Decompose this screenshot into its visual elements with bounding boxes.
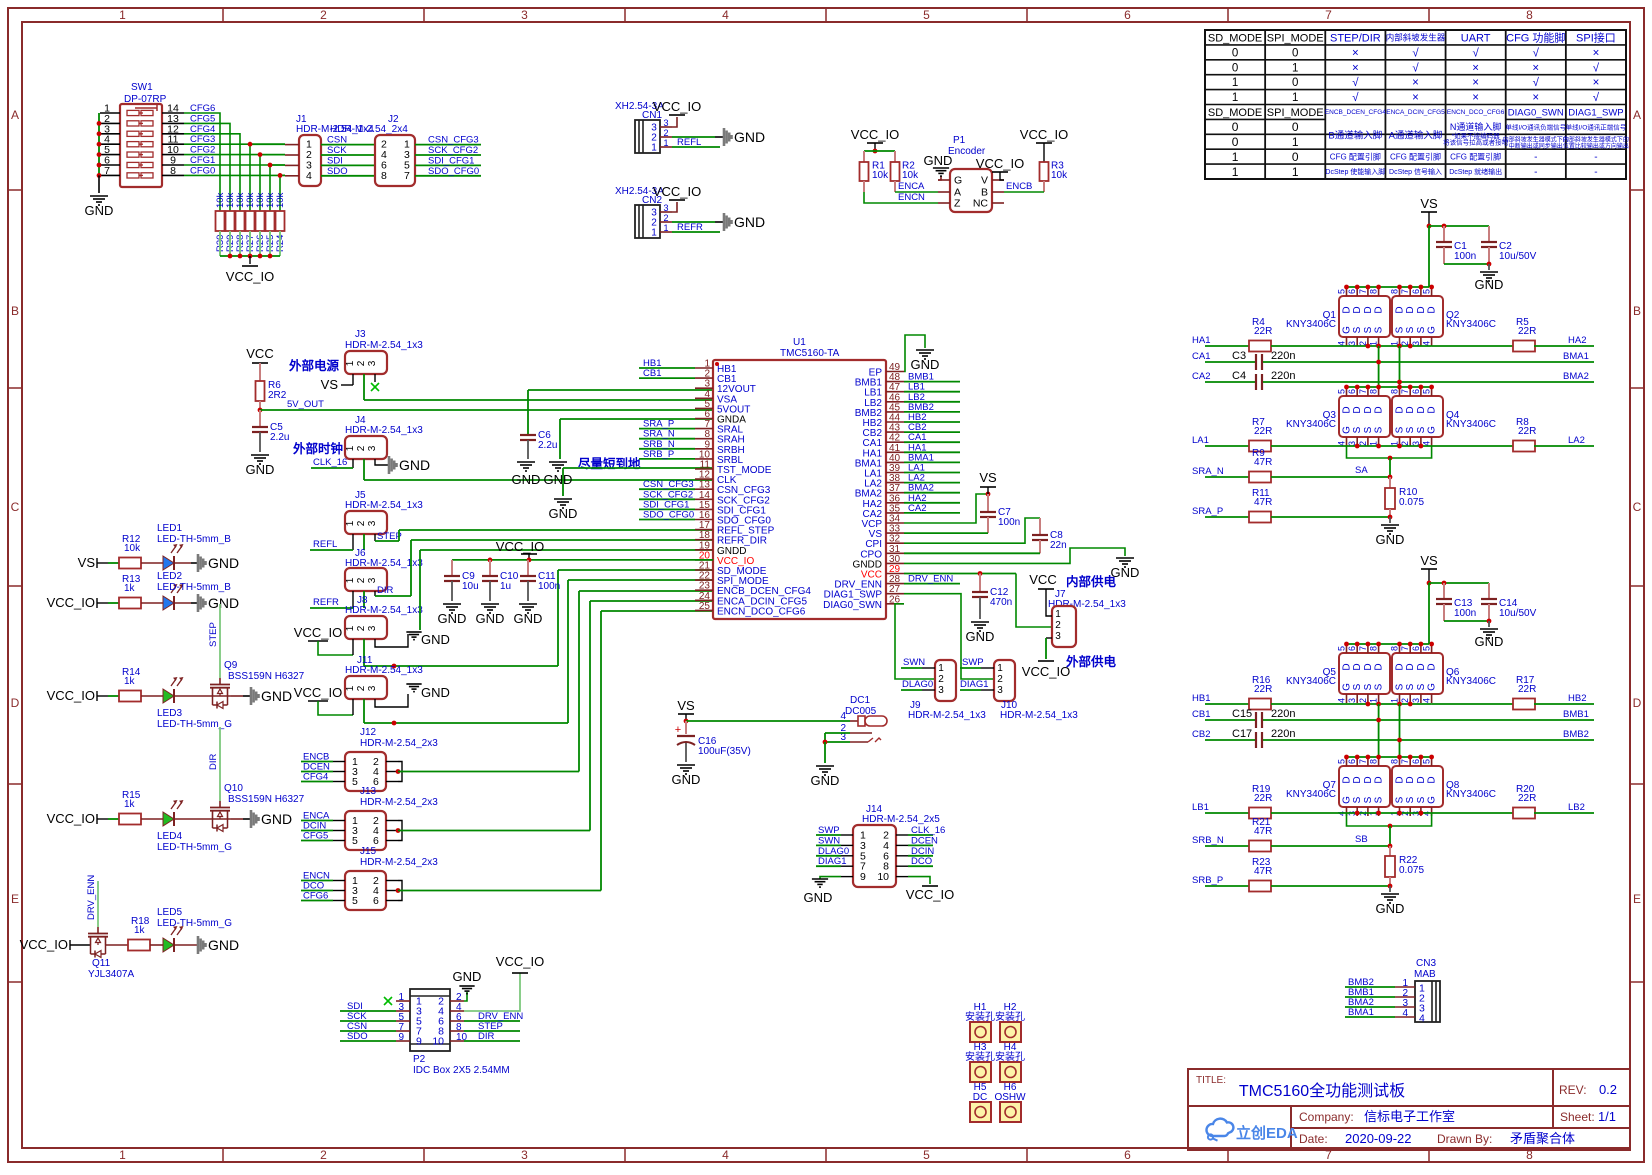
svg-text:外部电源: 外部电源	[288, 358, 340, 373]
svg-text:S: S	[1352, 426, 1363, 433]
svg-text:7: 7	[1325, 8, 1332, 22]
svg-text:D: D	[1352, 306, 1363, 313]
svg-text:5: 5	[1422, 389, 1432, 394]
svg-text:-: -	[1594, 167, 1597, 178]
svg-text:25: 25	[699, 601, 711, 612]
svg-text:HDR-M-2.54_2x3: HDR-M-2.54_2x3	[360, 738, 438, 749]
svg-text:100n: 100n	[1454, 251, 1476, 262]
svg-text:×: ×	[1472, 77, 1479, 89]
svg-text:DIR: DIR	[208, 754, 219, 771]
svg-text:A通道输入脚: A通道输入脚	[1389, 129, 1443, 141]
svg-text:5: 5	[352, 776, 358, 788]
svg-text:单线I/O通讯正端信号: 单线I/O通讯正端信号	[1566, 123, 1627, 132]
svg-text:DCIN: DCIN	[911, 846, 934, 857]
svg-text:VCC_IO: VCC_IO	[653, 99, 701, 114]
svg-text:1: 1	[1292, 92, 1298, 104]
svg-text:×: ×	[1593, 77, 1600, 89]
svg-text:LED-TH-5mm_B: LED-TH-5mm_B	[157, 582, 231, 593]
svg-text:HDR-M-2.54_1x3: HDR-M-2.54_1x3	[345, 665, 423, 676]
svg-text:HB2: HB2	[1568, 693, 1586, 704]
svg-text:G: G	[954, 175, 962, 187]
svg-text:KNY3406C: KNY3406C	[1286, 789, 1336, 800]
svg-text:BSS159N H6327: BSS159N H6327	[228, 794, 305, 805]
svg-text:220n: 220n	[1271, 728, 1295, 740]
svg-text:VCC_IO: VCC_IO	[294, 625, 342, 640]
svg-text:S: S	[1374, 426, 1385, 433]
svg-text:SDO: SDO	[347, 1031, 368, 1042]
svg-text:3: 3	[521, 1148, 528, 1162]
svg-text:VCC: VCC	[1029, 572, 1056, 587]
svg-text:220n: 220n	[1271, 350, 1295, 362]
svg-text:DIAG1_SWP: DIAG1_SWP	[1568, 107, 1623, 118]
svg-text:3: 3	[997, 685, 1003, 696]
svg-text:VS: VS	[677, 698, 695, 713]
svg-text:KNY3406C: KNY3406C	[1446, 319, 1496, 330]
svg-text:D: D	[1342, 663, 1353, 670]
svg-text:GND: GND	[208, 937, 239, 953]
svg-text:SD_MODE: SD_MODE	[1208, 32, 1262, 44]
svg-text:HDR-M-2.54_1x3: HDR-M-2.54_1x3	[908, 710, 986, 721]
svg-text:5: 5	[923, 1148, 930, 1162]
svg-text:*如果不接编码器: *如果不接编码器	[1452, 131, 1501, 140]
svg-text:3: 3	[938, 685, 944, 696]
svg-text:VS: VS	[78, 555, 96, 570]
svg-text:100uF(35V): 100uF(35V)	[698, 746, 751, 757]
svg-text:VCC_IO: VCC_IO	[653, 184, 701, 199]
svg-text:D: D	[1416, 406, 1427, 413]
svg-text:S: S	[1352, 796, 1363, 803]
svg-text:D: D	[11, 696, 20, 710]
svg-text:立创EDA: 立创EDA	[1236, 1124, 1298, 1142]
svg-text:2020-09-22: 2020-09-22	[1345, 1131, 1412, 1146]
svg-text:BMA1: BMA1	[1348, 1007, 1374, 1018]
svg-text:D: D	[1405, 406, 1416, 413]
svg-text:D: D	[1395, 776, 1406, 783]
svg-text:LA2: LA2	[1568, 435, 1585, 446]
svg-text:5: 5	[1337, 389, 1347, 394]
svg-text:CFG 配置引脚: CFG 配置引脚	[1450, 151, 1501, 161]
svg-text:A: A	[11, 108, 19, 122]
svg-text:GND: GND	[811, 773, 840, 788]
svg-text:D: D	[1416, 306, 1427, 313]
svg-text:单线I/O通讯负端信号: 单线I/O通讯负端信号	[1505, 123, 1566, 132]
svg-text:GND: GND	[804, 890, 833, 905]
svg-text:GND: GND	[421, 685, 450, 700]
svg-text:×: ×	[1352, 62, 1359, 74]
svg-text:0: 0	[1232, 135, 1239, 149]
svg-text:4: 4	[306, 170, 312, 182]
svg-text:√: √	[1593, 61, 1600, 74]
svg-text:0: 0	[1292, 77, 1298, 89]
svg-text:3: 3	[367, 577, 378, 583]
svg-text:D: D	[1342, 306, 1353, 313]
svg-text:√: √	[1352, 76, 1359, 89]
svg-text:C: C	[11, 500, 20, 514]
svg-text:SPI_MODE: SPI_MODE	[1267, 32, 1324, 44]
svg-text:8: 8	[1369, 646, 1379, 651]
svg-text:SRB_P: SRB_P	[1192, 875, 1223, 886]
svg-text:C15: C15	[1232, 708, 1252, 720]
svg-text:2: 2	[320, 1148, 327, 1162]
svg-text:VS: VS	[1420, 553, 1438, 568]
svg-text:D: D	[1427, 663, 1438, 670]
svg-text:0: 0	[1292, 47, 1298, 59]
svg-text:47R: 47R	[1254, 497, 1272, 508]
svg-text:SA: SA	[1355, 465, 1368, 476]
svg-text:S: S	[1416, 683, 1427, 690]
svg-text:DRV_ENN: DRV_ENN	[86, 875, 97, 920]
svg-text:1: 1	[345, 685, 356, 691]
svg-text:8: 8	[1390, 759, 1400, 764]
svg-text:100n: 100n	[1454, 608, 1476, 619]
svg-text:HDR-M-2.54_1x3: HDR-M-2.54_1x3	[345, 340, 423, 351]
svg-text:6: 6	[1411, 759, 1421, 764]
svg-text:7: 7	[1358, 646, 1368, 651]
svg-text:GND: GND	[911, 357, 940, 372]
svg-text:P2: P2	[413, 1054, 426, 1065]
svg-text:1/1: 1/1	[1598, 1109, 1616, 1124]
svg-text:47R: 47R	[1254, 457, 1272, 468]
svg-text:J3: J3	[355, 329, 366, 340]
svg-text:1: 1	[663, 223, 668, 233]
svg-text:4: 4	[1337, 698, 1347, 703]
svg-text:1k: 1k	[134, 925, 146, 936]
svg-text:D: D	[1395, 663, 1406, 670]
svg-text:2: 2	[356, 577, 367, 583]
svg-text:D: D	[1633, 696, 1642, 710]
svg-text:Q9: Q9	[224, 660, 238, 671]
svg-text:HDR-M-2.54_2x5: HDR-M-2.54_2x5	[862, 814, 940, 825]
svg-text:D: D	[1374, 306, 1385, 313]
svg-text:DRV_ENN: DRV_ENN	[908, 574, 953, 585]
svg-text:GND: GND	[421, 632, 450, 647]
svg-text:1: 1	[345, 360, 356, 366]
svg-text:CSN_CFG3: CSN_CFG3	[428, 135, 479, 146]
svg-text:GND: GND	[261, 811, 292, 827]
svg-text:-: -	[1594, 152, 1597, 163]
svg-text:VS: VS	[979, 470, 997, 485]
svg-text:D: D	[1405, 776, 1416, 783]
svg-text:D: D	[1363, 663, 1374, 670]
svg-text:HDR-M-2.54_2x3: HDR-M-2.54_2x3	[360, 857, 438, 868]
svg-text:HA1: HA1	[1192, 335, 1210, 346]
svg-text:CFG5: CFG5	[303, 831, 328, 842]
svg-text:D: D	[1374, 406, 1385, 413]
svg-text:√: √	[1533, 46, 1540, 59]
svg-text:GND: GND	[924, 153, 953, 168]
svg-text:DcStep 就绪输出: DcStep 就绪输出	[1449, 167, 1502, 176]
svg-text:6: 6	[1124, 8, 1131, 22]
svg-text:√: √	[1412, 61, 1419, 74]
svg-text:S: S	[1363, 796, 1374, 803]
svg-text:22R: 22R	[1254, 426, 1272, 437]
svg-text:CA2: CA2	[1192, 371, 1210, 382]
svg-text:内部供电: 内部供电	[1066, 574, 1117, 589]
svg-text:22R: 22R	[1518, 684, 1536, 695]
svg-text:6: 6	[373, 895, 379, 907]
svg-text:J13: J13	[360, 786, 377, 797]
svg-text:8: 8	[1526, 8, 1533, 22]
svg-text:DcStep 使能输入脚: DcStep 使能输入脚	[1325, 167, 1385, 176]
svg-text:1: 1	[1232, 165, 1239, 179]
svg-text:ENCA_DCIN_CFG5: ENCA_DCIN_CFG5	[1386, 109, 1445, 116]
svg-text:LB1: LB1	[1192, 802, 1209, 813]
svg-text:NC: NC	[973, 198, 989, 210]
svg-text:4: 4	[1402, 1008, 1408, 1019]
svg-text:3: 3	[367, 360, 378, 366]
svg-text:SRA_N: SRA_N	[1192, 466, 1224, 477]
svg-text:1: 1	[997, 663, 1003, 674]
svg-text:√: √	[1412, 46, 1419, 59]
svg-text:CSN: CSN	[327, 135, 347, 146]
svg-text:0.075: 0.075	[1399, 865, 1424, 876]
svg-text:1: 1	[1292, 62, 1298, 74]
svg-text:1: 1	[1055, 609, 1061, 620]
svg-text:LED-TH-5mm_B: LED-TH-5mm_B	[157, 534, 231, 545]
svg-text:DcStep 信号输入: DcStep 信号输入	[1389, 167, 1442, 176]
svg-text:CLK_16: CLK_16	[313, 457, 347, 468]
svg-text:CFG 配置引脚: CFG 配置引脚	[1330, 151, 1381, 161]
svg-text:100n: 100n	[998, 517, 1020, 528]
svg-text:2: 2	[663, 213, 668, 223]
svg-text:3: 3	[663, 118, 668, 128]
svg-text:0: 0	[1292, 120, 1299, 134]
svg-text:1: 1	[938, 663, 944, 674]
svg-text:GND: GND	[734, 129, 765, 145]
svg-text:4: 4	[722, 8, 729, 22]
svg-text:CA1: CA1	[1192, 351, 1210, 362]
svg-text:0.075: 0.075	[1399, 497, 1424, 508]
svg-text:DLAG0: DLAG0	[902, 679, 933, 690]
svg-text:D: D	[1427, 776, 1438, 783]
svg-text:GND: GND	[1475, 634, 1504, 649]
svg-text:S: S	[1395, 796, 1406, 803]
svg-text:5: 5	[352, 895, 358, 907]
svg-text:D: D	[1374, 663, 1385, 670]
svg-text:LED-TH-5mm_G: LED-TH-5mm_G	[157, 918, 232, 929]
svg-text:100n: 100n	[538, 581, 560, 592]
svg-text:D: D	[1395, 406, 1406, 413]
svg-text:KNY3406C: KNY3406C	[1286, 419, 1336, 430]
svg-text:REFL: REFL	[313, 539, 337, 550]
svg-text:1: 1	[651, 228, 657, 239]
svg-text:7: 7	[1400, 646, 1410, 651]
svg-text:8: 8	[170, 165, 176, 177]
svg-text:8: 8	[1390, 289, 1400, 294]
svg-text:D: D	[1416, 776, 1427, 783]
svg-text:2: 2	[356, 685, 367, 691]
svg-text:D: D	[1363, 406, 1374, 413]
svg-text:1: 1	[1292, 165, 1299, 179]
svg-text:信标电子工作室: 信标电子工作室	[1364, 1109, 1455, 1124]
svg-text:S: S	[1405, 326, 1416, 333]
svg-text:√: √	[1472, 46, 1479, 59]
svg-text:3: 3	[521, 8, 528, 22]
svg-text:22R: 22R	[1518, 426, 1536, 437]
svg-text:S: S	[1405, 683, 1416, 690]
svg-text:SDI: SDI	[327, 155, 343, 166]
svg-text:2: 2	[356, 445, 367, 451]
svg-text:LED5: LED5	[157, 907, 182, 918]
svg-text:KNY3406C: KNY3406C	[1286, 676, 1336, 687]
svg-text:×: ×	[1593, 47, 1600, 59]
svg-text:1: 1	[345, 520, 356, 526]
svg-text:SW1: SW1	[131, 82, 153, 93]
svg-text:2: 2	[938, 674, 944, 685]
svg-text:VCC_IO: VCC_IO	[1020, 127, 1068, 142]
svg-text:CFG4: CFG4	[303, 772, 328, 783]
svg-text:GND: GND	[438, 611, 467, 626]
svg-text:√: √	[1533, 76, 1540, 89]
svg-text:HDR-M-2.54_1x3: HDR-M-2.54_1x3	[1000, 710, 1078, 721]
svg-text:VCC_IO: VCC_IO	[1022, 664, 1070, 679]
svg-text:Drawn By:: Drawn By:	[1437, 1132, 1492, 1146]
svg-text:G: G	[1427, 426, 1438, 434]
svg-text:VS: VS	[321, 377, 339, 392]
svg-text:HA2: HA2	[1568, 335, 1586, 346]
svg-text:220n: 220n	[1271, 708, 1295, 720]
svg-text:0: 0	[1232, 47, 1238, 59]
svg-text:CN3: CN3	[1416, 958, 1436, 969]
svg-text:D: D	[1405, 663, 1416, 670]
svg-text:VCC_IO: VCC_IO	[496, 954, 544, 969]
svg-text:6: 6	[1347, 759, 1357, 764]
svg-text:S: S	[1352, 683, 1363, 690]
svg-text:10k: 10k	[872, 170, 889, 181]
svg-text:LED4: LED4	[157, 831, 182, 842]
svg-text:DIAG0_SWN: DIAG0_SWN	[823, 600, 882, 611]
svg-text:S: S	[1374, 796, 1385, 803]
svg-text:YJL3407A: YJL3407A	[88, 969, 134, 980]
svg-text:CB2: CB2	[1192, 729, 1210, 740]
svg-text:DIAG0_SWN: DIAG0_SWN	[1508, 107, 1564, 118]
svg-text:S: S	[1405, 796, 1416, 803]
svg-text:SDI_CFG1: SDI_CFG1	[428, 155, 474, 166]
svg-text:5: 5	[1422, 646, 1432, 651]
svg-text:×: ×	[1472, 92, 1479, 104]
svg-text:Q10: Q10	[224, 783, 243, 794]
svg-text:3: 3	[367, 445, 378, 451]
svg-text:内部斜坡发生器: 内部斜坡发生器	[1386, 32, 1446, 42]
svg-text:GND: GND	[85, 203, 114, 218]
svg-text:P1: P1	[953, 135, 966, 146]
svg-text:Q11: Q11	[92, 958, 111, 969]
svg-text:G: G	[1342, 426, 1353, 434]
svg-text:GND: GND	[966, 629, 995, 644]
svg-text:DIR: DIR	[377, 585, 394, 596]
svg-text:10u/50V: 10u/50V	[1499, 251, 1537, 262]
svg-text:1: 1	[1232, 92, 1238, 104]
svg-text:1: 1	[119, 1148, 126, 1162]
svg-text:GND: GND	[399, 457, 430, 473]
svg-text:矛盾聚合体: 矛盾聚合体	[1510, 1131, 1575, 1146]
svg-text:0: 0	[1292, 150, 1299, 164]
svg-text:REFL: REFL	[677, 137, 701, 148]
svg-text:HDR-M-2.54_1x3: HDR-M-2.54_1x3	[345, 500, 423, 511]
svg-text:×: ×	[1412, 92, 1419, 104]
svg-text:4: 4	[722, 1148, 729, 1162]
svg-text:1k: 1k	[124, 676, 136, 687]
svg-text:A: A	[1633, 108, 1641, 122]
svg-text:VCC: VCC	[246, 346, 273, 361]
svg-text:SWP: SWP	[818, 825, 840, 836]
svg-text:VCC_IO: VCC_IO	[496, 539, 544, 554]
svg-text:CLK_16: CLK_16	[911, 825, 945, 836]
svg-text:1k: 1k	[124, 799, 136, 810]
svg-text:Z: Z	[954, 198, 961, 210]
svg-text:7: 7	[104, 165, 110, 177]
svg-text:SCK_CFG2: SCK_CFG2	[428, 145, 478, 156]
svg-text:V: V	[981, 175, 988, 187]
svg-text:DLAG0: DLAG0	[818, 846, 849, 857]
svg-text:VCC_IO: VCC_IO	[47, 595, 95, 610]
svg-text:22R: 22R	[1518, 793, 1536, 804]
svg-text:GND: GND	[549, 506, 578, 521]
svg-text:G: G	[1342, 683, 1353, 691]
svg-text:6: 6	[1411, 646, 1421, 651]
svg-text:1: 1	[345, 625, 356, 631]
svg-text:LED2: LED2	[157, 571, 182, 582]
svg-text:C4: C4	[1232, 370, 1246, 382]
svg-text:3: 3	[1411, 698, 1421, 703]
svg-text:SRA_P: SRA_P	[1192, 506, 1223, 517]
svg-text:CA2: CA2	[908, 503, 926, 514]
svg-text:-: -	[1534, 152, 1537, 163]
svg-text:1: 1	[119, 8, 126, 22]
svg-text:3: 3	[1055, 631, 1061, 642]
svg-text:CFG 配置引脚: CFG 配置引脚	[1390, 151, 1441, 161]
svg-text:BMB1: BMB1	[1563, 709, 1589, 720]
svg-text:10k: 10k	[275, 192, 286, 208]
svg-text:中断输出或同步输出: 中断输出或同步输出	[1509, 142, 1563, 150]
svg-text:22R: 22R	[1254, 326, 1272, 337]
svg-text:SWN: SWN	[903, 657, 925, 668]
svg-text:VS: VS	[1420, 196, 1438, 211]
svg-text:7: 7	[1400, 289, 1410, 294]
svg-text:LED3: LED3	[157, 708, 182, 719]
svg-text:DCEN: DCEN	[911, 835, 938, 846]
svg-text:LA1: LA1	[1192, 435, 1209, 446]
svg-text:D: D	[1416, 663, 1427, 670]
svg-text:0: 0	[1232, 120, 1239, 134]
svg-text:470n: 470n	[990, 597, 1012, 608]
svg-text:8: 8	[1390, 389, 1400, 394]
svg-text:DIAG1: DIAG1	[960, 679, 989, 690]
svg-text:6: 6	[1411, 289, 1421, 294]
svg-text:BMA1: BMA1	[1563, 351, 1589, 362]
svg-text:U1: U1	[793, 337, 806, 348]
svg-text:6: 6	[1347, 646, 1357, 651]
svg-text:ENCB: ENCB	[1006, 181, 1032, 192]
svg-text:D: D	[1342, 776, 1353, 783]
svg-text:HDR-M-2.54_2x4: HDR-M-2.54_2x4	[330, 124, 408, 135]
svg-text:S: S	[1363, 426, 1374, 433]
svg-text:1: 1	[345, 577, 356, 583]
svg-text:3: 3	[367, 520, 378, 526]
svg-text:5: 5	[1422, 759, 1432, 764]
svg-text:CB1: CB1	[643, 368, 661, 379]
svg-text:2: 2	[320, 8, 327, 22]
svg-text:S: S	[1416, 426, 1427, 433]
svg-text:D: D	[1395, 306, 1406, 313]
svg-text:0: 0	[1232, 62, 1238, 74]
svg-text:SDO: SDO	[327, 166, 348, 177]
svg-text:VCC_IO: VCC_IO	[47, 811, 95, 826]
svg-text:2: 2	[356, 360, 367, 366]
svg-text:5: 5	[923, 8, 930, 22]
svg-text:SRB_N: SRB_N	[1192, 835, 1224, 846]
svg-text:9: 9	[416, 1036, 422, 1048]
